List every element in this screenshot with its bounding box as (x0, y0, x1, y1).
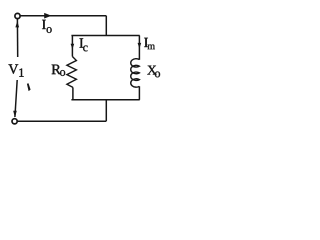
label Ic subscript c (83, 46, 87, 52)
label Xo subscript o (155, 72, 160, 78)
wire bottom horizontal (17, 120, 106, 122)
label Xo (147, 66, 156, 75)
wire top right drop (105, 16, 107, 36)
label Io (42, 20, 46, 29)
wire left branch upper segment (71, 36, 73, 57)
current arrow Io (44, 13, 51, 19)
label Io subscript o (47, 27, 52, 33)
current arrow Im (138, 43, 142, 49)
wire bottom bus (71, 99, 139, 101)
wire top horizontal (20, 15, 106, 17)
terminal node top-left (15, 13, 20, 18)
label V1 (8, 64, 18, 73)
wire right branch lower segment (138, 86, 140, 100)
voltage arrowhead up (top of V1) (15, 21, 19, 28)
voltage arrowhead down (bottom of V1) (13, 111, 17, 118)
resistor Ro zigzag (67, 57, 77, 88)
wire top bus (71, 35, 139, 37)
wire left vertical lower segment (15, 80, 17, 117)
wire left vertical upper segment (16, 19, 18, 57)
wire right branch upper segment (138, 36, 140, 60)
label Ic (80, 38, 84, 47)
label V1 subscript 1 (19, 68, 23, 76)
current arrow Ic (71, 44, 75, 50)
label Ro (52, 65, 61, 74)
stray ink mark (27, 83, 31, 91)
wire bottom drop (105, 100, 107, 121)
label Im (144, 38, 148, 47)
label Im subscript m (148, 44, 155, 49)
terminal node bottom-left (12, 119, 17, 124)
wire left branch lower segment (72, 87, 74, 99)
inductor Xo coil (131, 59, 140, 87)
label Ro subscript o (60, 70, 65, 76)
